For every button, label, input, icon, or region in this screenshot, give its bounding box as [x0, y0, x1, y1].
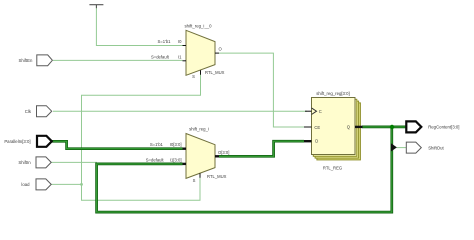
- mux U1 shift_reg_i__0: [151, 24, 225, 80]
- svg-text:I1[3:0]: I1[3:0]: [170, 157, 182, 162]
- svg-text:S=1'b1: S=1'b1: [150, 142, 164, 147]
- power symbol constant 1'b1: [89, 4, 103, 6]
- input port ShiftEn: [19, 55, 53, 66]
- svg-text:C: C: [319, 109, 322, 114]
- output port ShiftOut: [406, 142, 444, 153]
- svg-text:shift_reg_i__0: shift_reg_i__0: [185, 24, 213, 29]
- svg-text:D: D: [315, 138, 318, 143]
- svg-text:S=default: S=default: [146, 157, 165, 162]
- pin D stub: [304, 140, 312, 142]
- svg-text:Clk: Clk: [25, 109, 32, 114]
- bus register Q to RegContent[3:0]: [362, 126, 406, 129]
- svg-text:O[3:0]: O[3:0]: [218, 150, 229, 155]
- pin C stub: [305, 110, 312, 112]
- svg-text:S: S: [193, 178, 196, 183]
- svg-text:I0[3:0]: I0[3:0]: [170, 142, 182, 147]
- wire ShiftEn to top mux I1: [53, 59, 183, 61]
- pin Q stub: [355, 126, 363, 128]
- pin I0 stub: [183, 45, 187, 47]
- svg-text:S: S: [192, 74, 195, 79]
- svg-text:CE: CE: [314, 125, 320, 130]
- svg-text:RTL_MUX: RTL_MUX: [207, 174, 227, 179]
- svg-text:S=1'b1: S=1'b1: [157, 39, 171, 44]
- input port load: [21, 179, 51, 190]
- pin S stub: [199, 173, 201, 178]
- output port RegContent[3:0]: [406, 121, 459, 132]
- svg-text:shift_reg_reg[3:0]: shift_reg_reg[3:0]: [316, 91, 349, 96]
- svg-text:RegContent[3:0]: RegContent[3:0]: [428, 124, 459, 129]
- clock pin triangle: [312, 108, 317, 115]
- pin I1 stub: [183, 60, 187, 62]
- wire Clk to register C: [53, 110, 307, 112]
- pin CE stub: [304, 126, 312, 128]
- bus mux O[3:0] to register D: [219, 141, 304, 156]
- pin S stub: [200, 70, 202, 75]
- pin O stub: [215, 52, 219, 54]
- bus shift feedback net: Q junction down, across bottom, up to mux I1: [97, 127, 392, 212]
- wire ShiftOut tap to port: [397, 147, 407, 149]
- pin I1[3:0] stub: [183, 163, 187, 165]
- input port ShiftIn: [18, 157, 51, 168]
- svg-text:ShiftOut: ShiftOut: [428, 145, 444, 150]
- input port Clk: [25, 106, 52, 117]
- svg-text:ShiftEn: ShiftEn: [19, 58, 33, 63]
- svg-text:ParallelIn[3:0]: ParallelIn[3:0]: [4, 139, 30, 144]
- junction load net: [80, 183, 83, 186]
- wire load net from port to junction, up to top mux S, down to bottom mux S: [51, 183, 82, 185]
- bus tap to ShiftOut: [391, 143, 397, 151]
- wire ShiftIn to shift bus corner: [51, 161, 97, 163]
- svg-text:ShiftIn: ShiftIn: [18, 160, 31, 165]
- bus ParallelIn[3:0] to bottom mux I0: [51, 141, 183, 148]
- pin I0[3:0] stub: [183, 147, 187, 149]
- svg-text:RTL_MUX: RTL_MUX: [205, 70, 225, 75]
- register U3 shift_reg_reg[3:0]: [304, 91, 363, 170]
- svg-text:load: load: [21, 182, 30, 187]
- input port ParallelIn[3:0]: [4, 136, 51, 147]
- wire top mux O to register CE: [219, 53, 307, 127]
- svg-text:S=default: S=default: [151, 54, 170, 59]
- svg-text:shift_reg_i: shift_reg_i: [189, 127, 209, 132]
- mux U2 shift_reg_i: [146, 127, 230, 183]
- pin O[3:0] stub: [215, 155, 219, 157]
- wire constant 1'b1 to top mux I0: [96, 5, 182, 46]
- svg-text:RTL_REG: RTL_REG: [323, 165, 342, 170]
- junction Q net: [390, 125, 394, 129]
